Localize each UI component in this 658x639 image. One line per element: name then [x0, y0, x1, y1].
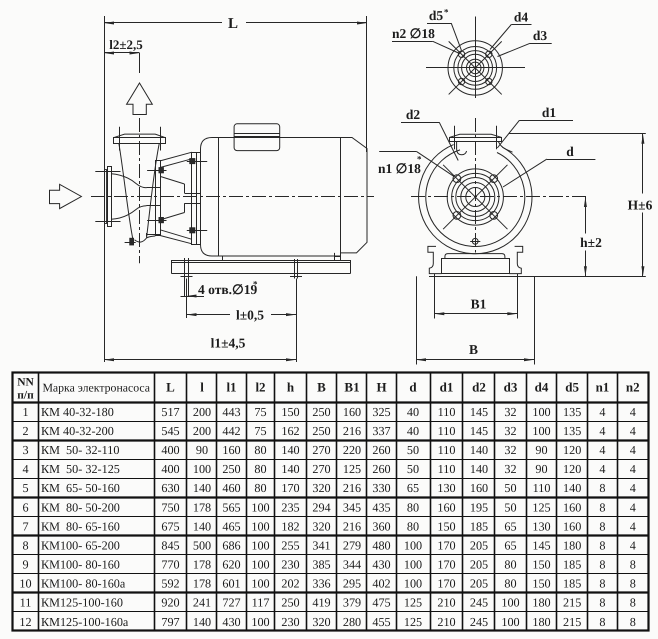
svg-text:4: 4 [630, 443, 636, 457]
svg-text:L: L [166, 380, 175, 395]
svg-text:419: 419 [312, 596, 330, 610]
svg-text:135: 135 [563, 424, 581, 438]
svg-text:797: 797 [161, 615, 179, 629]
svg-text:КМ100- 80-160а: КМ100- 80-160а [41, 577, 126, 591]
motor flange plate rear [197, 153, 201, 245]
motor foot left [222, 256, 224, 260]
discharge flange bolt line left [454, 126, 456, 150]
svg-text:75: 75 [254, 424, 266, 438]
svg-text:h: h [287, 380, 295, 395]
detail circle bore outer [467, 59, 484, 76]
svg-text:279: 279 [343, 538, 361, 552]
svg-text:140: 140 [470, 462, 488, 476]
svg-text:215: 215 [563, 615, 581, 629]
svg-text:100: 100 [404, 538, 422, 552]
svg-text:d3: d3 [533, 28, 548, 43]
svg-text:160: 160 [563, 519, 581, 533]
svg-text:B: B [317, 380, 326, 395]
svg-text:270: 270 [312, 462, 330, 476]
svg-text:125: 125 [343, 462, 361, 476]
svg-text:320: 320 [312, 519, 330, 533]
svg-text:216: 216 [343, 424, 361, 438]
suction flange bolt hole 3 [453, 211, 461, 219]
svg-text:90: 90 [535, 443, 547, 457]
casing cover bottom lug [146, 234, 160, 236]
svg-text:195: 195 [470, 500, 488, 514]
svg-text:80: 80 [254, 481, 266, 495]
B1 extension line left [434, 274, 436, 319]
svg-text:65: 65 [407, 481, 419, 495]
base plate bottom line [172, 273, 350, 275]
table header separator [13, 401, 649, 403]
svg-text:80: 80 [254, 462, 266, 476]
label n2 d18 leader [392, 41, 433, 43]
motor flange bolt top tick [187, 161, 207, 163]
svg-text:6: 6 [22, 500, 28, 514]
volute rear outline to cover [147, 236, 156, 238]
dimension B line [416, 359, 534, 361]
casing neck right flare [499, 142, 513, 152]
support left ear and foot [428, 246, 442, 273]
svg-text:430: 430 [372, 558, 390, 572]
svg-text:241: 241 [193, 596, 211, 610]
casing cover plate [156, 161, 161, 236]
svg-text:100: 100 [501, 615, 519, 629]
svg-text:100: 100 [501, 596, 519, 610]
svg-text:100: 100 [404, 558, 422, 572]
svg-text:4: 4 [630, 519, 636, 533]
svg-text:337: 337 [372, 424, 390, 438]
svg-text:185: 185 [563, 558, 581, 572]
label n1 leader [379, 151, 417, 153]
svg-text:770: 770 [161, 558, 179, 572]
casing outer circle [419, 145, 532, 254]
svg-text:d2: d2 [472, 380, 486, 395]
svg-text:255: 255 [281, 538, 299, 552]
svg-text:140: 140 [281, 443, 299, 457]
svg-text:170: 170 [437, 558, 455, 572]
suction flange bolt hole 1 [453, 175, 461, 183]
support plate [442, 259, 510, 274]
detail vertical centerline [475, 17, 477, 99]
svg-text:3: 3 [22, 443, 28, 457]
svg-text:145: 145 [532, 538, 550, 552]
svg-text:100: 100 [251, 538, 269, 552]
inlet flange gasket [105, 170, 107, 224]
detail circle d4 [454, 47, 497, 90]
svg-text:КМ 50- 32-110: КМ 50- 32-110 [41, 443, 119, 457]
bearing housing bottom [184, 203, 186, 212]
svg-text:50: 50 [407, 462, 419, 476]
svg-text:4 отв.∅19: 4 отв.∅19 [198, 282, 258, 297]
label d4 leader [511, 24, 531, 26]
volute bottom outline [135, 238, 147, 242]
svg-text:d1: d1 [542, 105, 557, 120]
svg-text:32: 32 [504, 462, 516, 476]
svg-text:2: 2 [22, 424, 28, 438]
suction nozzle top line [111, 174, 146, 188]
svg-text:n1: n1 [596, 380, 610, 395]
svg-text:250: 250 [312, 424, 330, 438]
svg-text:920: 920 [161, 596, 179, 610]
svg-text:100: 100 [251, 500, 269, 514]
svg-text:d2: d2 [406, 107, 421, 122]
svg-text:80: 80 [504, 577, 516, 591]
flange circle d2 [447, 169, 503, 225]
dimension L line with arrows [104, 22, 222, 24]
svg-text:517: 517 [161, 405, 179, 419]
inlet flange bolt line top [95, 171, 120, 173]
shaft circle [466, 188, 485, 207]
svg-text:8: 8 [599, 577, 605, 591]
inlet flange plate [108, 167, 112, 227]
bracket outer bottom line [160, 236, 192, 244]
svg-text:B1: B1 [471, 297, 487, 312]
table outer border [13, 373, 649, 631]
dimension h line [585, 197, 587, 234]
suction nozzle bottom line [111, 206, 146, 220]
svg-text:200: 200 [193, 424, 211, 438]
table column lines [38, 372, 40, 631]
svg-text:385: 385 [312, 558, 330, 572]
bolt diagonal line 135 [443, 165, 507, 229]
svg-text:l2±2,5: l2±2,5 [109, 37, 143, 52]
svg-text:*: * [253, 279, 258, 289]
svg-text:90: 90 [535, 462, 547, 476]
svg-text:430: 430 [222, 615, 240, 629]
svg-text:145: 145 [470, 405, 488, 419]
svg-text:8: 8 [22, 538, 28, 552]
svg-text:180: 180 [532, 596, 550, 610]
discharge flange bolt line right [496, 126, 498, 150]
svg-text:d5: d5 [565, 380, 579, 395]
flange top extension line [509, 133, 646, 135]
svg-text:215: 215 [563, 596, 581, 610]
svg-text:12: 12 [19, 615, 31, 629]
support saddle top [445, 254, 505, 259]
detail diagonal 45 [449, 41, 502, 94]
hole 2 extension line [296, 279, 298, 363]
casing cover bolt bottom [159, 218, 163, 223]
svg-text:280: 280 [343, 615, 361, 629]
svg-text:4: 4 [599, 424, 605, 438]
svg-text:50: 50 [504, 481, 516, 495]
casing cover bolt bottom tick [147, 220, 166, 222]
svg-text:Марка электронасоса: Марка электронасоса [42, 381, 150, 395]
svg-text:202: 202 [281, 577, 299, 591]
svg-text:140: 140 [563, 481, 581, 495]
svg-text:205: 205 [470, 577, 488, 591]
svg-text:235: 235 [281, 500, 299, 514]
svg-text:100: 100 [251, 577, 269, 591]
svg-text:100: 100 [532, 424, 550, 438]
dimension l2 extension tick [139, 53, 141, 73]
svg-text:260: 260 [372, 443, 390, 457]
svg-text:4: 4 [630, 538, 636, 552]
svg-text:n2 ∅18: n2 ∅18 [392, 26, 435, 41]
impeller eye bottom line [147, 205, 161, 207]
svg-text:178: 178 [193, 500, 211, 514]
detail bolt hole 1 [458, 51, 464, 57]
svg-text:4: 4 [599, 462, 605, 476]
svg-text:150: 150 [532, 577, 550, 591]
svg-text:592: 592 [161, 577, 179, 591]
svg-text:n2: n2 [626, 380, 640, 395]
detail circle d3 [458, 51, 493, 86]
svg-text:40: 40 [407, 424, 419, 438]
bracket inner top line [160, 176, 184, 184]
svg-text:d1: d1 [440, 380, 454, 395]
support right ear and foot [509, 246, 523, 273]
detail circle raised face [462, 54, 489, 81]
svg-text:4: 4 [630, 462, 636, 476]
svg-text:5: 5 [22, 481, 28, 495]
svg-text:675: 675 [161, 519, 179, 533]
svg-text:150: 150 [532, 558, 550, 572]
label d leader [547, 159, 596, 161]
label d5 leader [427, 23, 451, 25]
svg-text:32: 32 [504, 443, 516, 457]
detail bolt hole 4 [486, 78, 492, 84]
svg-text:325: 325 [372, 405, 390, 419]
motor flange bolt top [190, 159, 195, 164]
svg-text:455: 455 [372, 615, 390, 629]
shaft bottom line [185, 203, 201, 205]
discharge flow arrow up [127, 83, 153, 115]
drain boss tick [125, 242, 136, 244]
svg-text:КМ 40-32-200: КМ 40-32-200 [41, 424, 114, 438]
svg-text:601: 601 [222, 577, 240, 591]
shaft top line [185, 193, 201, 195]
svg-text:630: 630 [161, 481, 179, 495]
svg-text:8: 8 [599, 538, 605, 552]
svg-text:160: 160 [437, 500, 455, 514]
svg-text:*: * [417, 154, 422, 164]
dimension L extension line left [104, 16, 106, 362]
svg-text:216: 216 [343, 481, 361, 495]
svg-text:90: 90 [196, 443, 208, 457]
svg-text:100: 100 [532, 405, 550, 419]
svg-text:500: 500 [193, 538, 211, 552]
casing tongue hook [457, 142, 467, 155]
svg-text:КМ125-100-160а: КМ125-100-160а [41, 615, 129, 629]
foundation bolt hole 2 [294, 259, 296, 279]
svg-text:КМ 65- 50-160: КМ 65- 50-160 [41, 481, 120, 495]
svg-text:8: 8 [630, 596, 636, 610]
dimension 4 holes leader [181, 296, 205, 298]
svg-text:178: 178 [193, 558, 211, 572]
svg-text:11: 11 [20, 596, 32, 610]
svg-text:180: 180 [563, 538, 581, 552]
svg-text:150: 150 [437, 519, 455, 533]
svg-text:80: 80 [254, 443, 266, 457]
motor flange bolt bottom [190, 228, 195, 233]
svg-text:250: 250 [222, 462, 240, 476]
B1 extension line right [517, 274, 519, 319]
svg-text:480: 480 [372, 538, 390, 552]
bracket bottom rib [160, 230, 192, 240]
motor frame joint line [218, 138, 220, 257]
svg-text:125: 125 [404, 615, 422, 629]
svg-text:320: 320 [312, 615, 330, 629]
svg-text:220: 220 [343, 443, 361, 457]
svg-text:160: 160 [222, 443, 240, 457]
svg-text:4: 4 [630, 500, 636, 514]
svg-text:140: 140 [193, 615, 211, 629]
svg-text:110: 110 [533, 481, 551, 495]
svg-text:d: d [566, 144, 574, 159]
hole 1 extension line [186, 279, 188, 319]
svg-text:140: 140 [281, 462, 299, 476]
svg-text:8: 8 [599, 615, 605, 629]
svg-text:178: 178 [193, 577, 211, 591]
dimension H line [642, 134, 644, 194]
svg-text:d: d [409, 380, 417, 395]
svg-text:160: 160 [563, 500, 581, 514]
foundation bolt hole 1 [184, 258, 186, 296]
svg-text:336: 336 [312, 577, 330, 591]
svg-text:125: 125 [532, 500, 550, 514]
bracket outer top line [160, 152, 192, 161]
dimension L extension line right [366, 16, 368, 152]
svg-text:260: 260 [372, 462, 390, 476]
svg-text:4: 4 [599, 405, 605, 419]
svg-text:d5: d5 [429, 8, 444, 23]
svg-text:435: 435 [372, 500, 390, 514]
svg-text:216: 216 [343, 519, 361, 533]
casing cover bolt top [159, 168, 163, 173]
svg-text:l±0,5: l±0,5 [236, 308, 264, 323]
svg-text:360: 360 [372, 519, 390, 533]
svg-text:n1 ∅18: n1 ∅18 [378, 161, 421, 176]
pump horizontal centerline [91, 196, 374, 198]
svg-text:4: 4 [630, 405, 636, 419]
svg-text:341: 341 [312, 538, 330, 552]
svg-text:200: 200 [193, 405, 211, 419]
discharge flange raised face [450, 134, 502, 137]
svg-text:L: L [228, 16, 238, 32]
casing cover bolt top tick [147, 170, 166, 172]
motor body [201, 138, 341, 257]
svg-text:443: 443 [222, 405, 240, 419]
dimension l1 line [104, 359, 296, 361]
svg-text:80: 80 [407, 500, 419, 514]
svg-text:727: 727 [222, 596, 240, 610]
svg-text:145: 145 [470, 424, 488, 438]
svg-text:1: 1 [22, 405, 28, 419]
svg-text:КМ 40-32-180: КМ 40-32-180 [41, 405, 114, 419]
label d2 leader [401, 122, 439, 124]
dimension l2 line [104, 52, 140, 54]
dimension l line [187, 314, 231, 316]
bolt diagonal line 45 [443, 165, 507, 229]
svg-text:4: 4 [22, 462, 28, 476]
casing inner circle [426, 150, 525, 247]
svg-text:100: 100 [404, 577, 422, 591]
svg-text:КМ100- 80-160: КМ100- 80-160 [41, 558, 120, 572]
svg-text:H±6: H±6 [628, 198, 653, 213]
svg-text:110: 110 [438, 424, 456, 438]
svg-text:80: 80 [407, 519, 419, 533]
svg-text:100: 100 [251, 615, 269, 629]
svg-text:130: 130 [437, 481, 455, 495]
svg-text:140: 140 [193, 519, 211, 533]
svg-text:402: 402 [372, 577, 390, 591]
svg-text:294: 294 [312, 500, 330, 514]
svg-text:8: 8 [630, 558, 636, 572]
discharge flange plate [114, 138, 166, 144]
svg-text:65: 65 [504, 519, 516, 533]
svg-text:7: 7 [22, 519, 28, 533]
svg-text:9: 9 [22, 558, 28, 572]
svg-text:75: 75 [254, 405, 266, 419]
svg-text:l1: l1 [226, 380, 236, 395]
base plate right edge [350, 260, 352, 274]
svg-text:110: 110 [438, 443, 456, 457]
svg-text:B1: B1 [344, 380, 359, 395]
svg-text:320: 320 [312, 481, 330, 495]
svg-text:125: 125 [404, 596, 422, 610]
fan shroud [341, 138, 368, 253]
ground baseline [429, 276, 646, 278]
discharge axis centerline [139, 118, 141, 263]
svg-text:185: 185 [470, 519, 488, 533]
svg-text:110: 110 [438, 405, 456, 419]
svg-text:565: 565 [222, 500, 240, 514]
svg-text:160: 160 [343, 405, 361, 419]
svg-text:32: 32 [504, 405, 516, 419]
bracket top rib [160, 159, 192, 168]
svg-text:100: 100 [193, 462, 211, 476]
svg-text:845: 845 [161, 538, 179, 552]
svg-text:КМ 80- 65-160: КМ 80- 65-160 [41, 519, 120, 533]
svg-text:150: 150 [281, 405, 299, 419]
svg-text:8: 8 [630, 615, 636, 629]
svg-text:8: 8 [599, 481, 605, 495]
svg-text:379: 379 [343, 596, 361, 610]
drain hole cross [470, 241, 480, 243]
front view vertical centerline [475, 118, 477, 253]
svg-text:32: 32 [504, 424, 516, 438]
svg-text:465: 465 [222, 519, 240, 533]
svg-text:КМ 50- 32-125: КМ 50- 32-125 [41, 462, 120, 476]
terminal box lid line 2 [234, 136, 280, 138]
svg-text:140: 140 [470, 443, 488, 457]
bearing housing top [184, 184, 186, 193]
bracket inner bottom line [160, 213, 184, 220]
svg-text:*: * [444, 7, 449, 17]
detail horizontal centerline [426, 67, 525, 69]
svg-text:250: 250 [281, 596, 299, 610]
volute casing cone right edge [147, 144, 160, 238]
svg-text:КМ 80- 50-200: КМ 80- 50-200 [41, 500, 120, 514]
svg-text:117: 117 [252, 596, 270, 610]
svg-text:B: B [469, 342, 478, 357]
dimension B1 line [434, 313, 517, 315]
svg-text:330: 330 [372, 481, 390, 495]
svg-text:750: 750 [161, 500, 179, 514]
svg-text:170: 170 [437, 538, 455, 552]
discharge flange raised face [113, 134, 165, 138]
impeller eye top line [147, 187, 161, 189]
motor foot right [334, 253, 336, 256]
svg-text:l1±4,5: l1±4,5 [211, 336, 246, 351]
drain boss block [130, 238, 134, 245]
svg-text:295: 295 [343, 577, 361, 591]
svg-text:205: 205 [470, 538, 488, 552]
svg-text:245: 245 [470, 596, 488, 610]
svg-text:п/п: п/п [17, 390, 34, 402]
